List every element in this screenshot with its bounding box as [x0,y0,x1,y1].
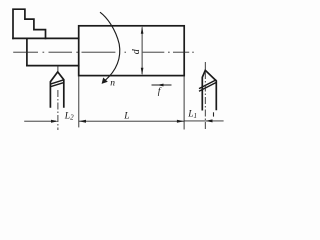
left tool cutting face band [50,80,63,87]
extension line workpiece left [78,76,80,128]
right tool stub extension [204,62,206,70]
chuck jaw staircase [13,9,46,38]
rotation arc n [100,12,120,81]
left tool body [50,72,63,108]
arrowhead d bottom [141,68,144,76]
arrowhead d top [141,26,144,34]
dimension line L1 shaft [184,120,224,122]
left tool centerline [57,90,59,130]
svg-text:L1: L1 [187,109,197,119]
svg-text:L: L [123,111,129,121]
svg-text:n: n [110,79,115,89]
right tool edge dash [213,112,215,116]
wire spindle top line [13,37,79,39]
arrowhead L2 right-pointing [51,120,58,123]
arrowhead L right end [177,120,184,123]
right tool body [202,70,216,110]
arrowhead L1 right side left-pointing [205,119,212,122]
dimension d line [141,27,143,74]
dimension line L shaft [79,120,184,122]
centerline axis [13,51,194,53]
wire spindle bottom line [27,65,79,67]
arrowhead L left end [79,120,86,123]
spindle bar left edge [26,38,28,65]
arrowhead rotation arc [102,78,108,84]
left tool stub extension [57,66,59,72]
right tool centerline [204,72,206,131]
svg-text:L2: L2 [64,111,74,121]
feed arrow f [152,84,172,86]
extension line workpiece right [183,76,185,130]
workpiece rectangle [79,26,185,76]
right tool cutting face band [199,80,216,91]
dimension line L2 shaft [24,120,56,122]
